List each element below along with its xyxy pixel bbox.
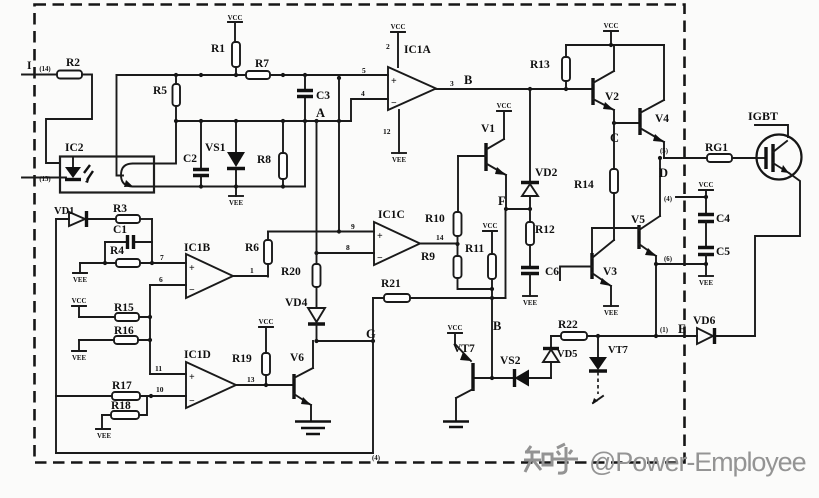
svg-text:C3: C3	[316, 90, 330, 102]
svg-text:R9: R9	[421, 251, 435, 263]
svg-text:(1): (1)	[660, 327, 668, 334]
svg-text:VS1: VS1	[205, 142, 226, 154]
resistor R16	[79, 325, 150, 344]
resistor R12	[526, 222, 555, 267]
ground below V6	[295, 422, 331, 435]
svg-text:V6: V6	[290, 352, 304, 364]
svg-text:4: 4	[361, 89, 365, 98]
svg-text:C5: C5	[716, 246, 730, 258]
power VCC above C4	[699, 182, 714, 214]
svg-text:IC1A: IC1A	[404, 44, 432, 56]
svg-text:VD1: VD1	[54, 206, 74, 217]
svg-text:7: 7	[160, 253, 164, 262]
wire node B column down to VT7 base	[490, 279, 501, 378]
svg-text:R11: R11	[465, 243, 484, 255]
svg-text:V1: V1	[481, 123, 495, 135]
svg-text:(4): (4)	[372, 455, 380, 462]
wire VCC rail y75	[117, 66, 389, 75]
power VCC above R15	[72, 298, 87, 317]
power VCC above VT7	[448, 325, 463, 344]
svg-text:(4): (4)	[664, 196, 672, 203]
capacitor C1	[105, 224, 152, 263]
diode VD1	[54, 206, 116, 227]
svg-text:+: +	[189, 263, 195, 274]
svg-text:R2: R2	[66, 57, 80, 69]
svg-text:VCC: VCC	[228, 15, 243, 22]
svg-text:−: −	[189, 285, 195, 296]
svg-text:VEE: VEE	[604, 310, 618, 317]
svg-text:(6): (6)	[664, 256, 672, 263]
wire bottom rail y186.5 (IC2 emitter line)	[133, 186, 305, 188]
IC2 LED	[65, 157, 81, 180]
svg-text:V4: V4	[655, 113, 669, 125]
resistor R21	[373, 278, 506, 302]
svg-text:A: A	[316, 106, 325, 120]
svg-text:IC1C: IC1C	[378, 209, 405, 221]
svg-text:VD5: VD5	[557, 349, 577, 360]
svg-text:R10: R10	[425, 213, 445, 225]
svg-text:(14): (14)	[39, 66, 50, 73]
diode VD4	[285, 297, 325, 341]
svg-text:VEE: VEE	[229, 200, 243, 207]
transistor V1	[458, 123, 506, 209]
wire (6) line	[654, 256, 706, 266]
svg-text:I: I	[27, 60, 32, 72]
svg-text:C1: C1	[113, 224, 127, 236]
resistor R1	[211, 42, 240, 75]
node dots on VCC rail	[174, 73, 341, 80]
wire R2 to IC2 LED anode	[46, 75, 92, 164]
resistor R20 on node A column	[281, 121, 321, 308]
svg-text:R1: R1	[211, 43, 225, 55]
svg-text:C4: C4	[716, 213, 730, 225]
svg-text:VCC: VCC	[259, 319, 274, 326]
svg-text:VCC: VCC	[497, 103, 512, 110]
wire node E line with R22	[551, 322, 755, 338]
capacitor C5	[698, 246, 730, 276]
ground below VT7	[443, 422, 469, 428]
wire node D column	[658, 156, 668, 216]
svg-text:C2: C2	[183, 153, 197, 165]
svg-text:−: −	[377, 253, 383, 264]
svg-text:(13): (13)	[39, 176, 50, 183]
svg-text:R20: R20	[281, 266, 301, 278]
svg-text:R6: R6	[245, 242, 259, 254]
svg-text:−: −	[189, 396, 195, 407]
wire IC1C pin9 line	[268, 222, 374, 234]
resistor R8	[257, 121, 287, 187]
wire G vertical to bottom rail	[372, 298, 374, 453]
wire V5 base to V3 base column	[591, 228, 593, 253]
svg-text:R16: R16	[114, 325, 134, 337]
op-amp IC1B	[184, 242, 233, 298]
resistor R5	[153, 75, 180, 164]
power VEE below IC1A pin 12	[383, 110, 406, 164]
power VEE below R4	[73, 263, 87, 284]
svg-text:R14: R14	[574, 179, 594, 191]
svg-text:VD6: VD6	[693, 315, 716, 327]
resistor R13	[530, 45, 570, 89]
capacitor C3	[297, 75, 330, 187]
power VEE below C5	[699, 276, 713, 287]
svg-text:−: −	[391, 98, 397, 109]
svg-text:IC1B: IC1B	[184, 242, 211, 254]
svg-text:IC1D: IC1D	[184, 349, 211, 361]
optocoupler IC2	[60, 142, 154, 193]
svg-text:RG1: RG1	[705, 142, 728, 154]
svg-text:VD2: VD2	[535, 167, 558, 179]
svg-text:R18: R18	[111, 400, 131, 412]
wire node G line	[314, 327, 376, 343]
zener VS2	[474, 355, 551, 387]
svg-text:R21: R21	[381, 278, 401, 290]
transistor V4	[640, 45, 669, 158]
node dots on A rail	[174, 119, 341, 123]
wire bottom rail	[56, 453, 380, 462]
wire node F	[498, 194, 532, 298]
power VEE below R16	[72, 340, 86, 362]
wire left rail	[55, 219, 57, 453]
transistor V2	[593, 45, 619, 123]
svg-text:VCC: VCC	[483, 223, 498, 230]
svg-text:B: B	[464, 73, 472, 87]
transistor V6	[290, 341, 313, 421]
svg-text:12: 12	[383, 127, 391, 136]
IC2 lightning arrow	[84, 165, 93, 183]
power VCC above V1	[497, 103, 512, 139]
wire node B: IC1A output to V2 base	[436, 73, 593, 91]
svg-text:R8: R8	[257, 154, 271, 166]
resistor R22	[558, 319, 587, 340]
resistor R11	[465, 243, 496, 279]
wire V3 base to C6	[560, 267, 592, 281]
wire input pin 13	[22, 176, 66, 183]
svg-text:1: 1	[250, 266, 254, 275]
op-amp IC1A	[388, 44, 436, 110]
power VCC above R11	[483, 223, 498, 254]
svg-text:R3: R3	[113, 203, 127, 215]
resistor R19	[232, 353, 270, 385]
wire IC1D pin10 / R17 line	[56, 385, 186, 398]
capacitor C4	[698, 213, 730, 248]
resistor R6	[245, 232, 272, 277]
svg-text:E: E	[678, 322, 686, 336]
svg-text:VEE: VEE	[72, 355, 86, 362]
IC2 phototransistor	[117, 75, 175, 187]
power VEE below VS1	[229, 196, 243, 207]
resistor R17	[112, 380, 140, 400]
svg-text:B: B	[493, 319, 501, 333]
zener VT7b below E line	[589, 336, 628, 404]
svg-text:R13: R13	[530, 59, 550, 71]
wire node A rail y121	[176, 106, 351, 121]
resistor R14	[574, 123, 618, 240]
svg-text:6: 6	[159, 275, 163, 284]
IGBT transistor circle	[757, 135, 802, 180]
svg-text:VCC: VCC	[448, 325, 463, 332]
wire IC1B output pin1	[233, 266, 268, 276]
svg-text:R7: R7	[255, 58, 269, 70]
svg-text:R12: R12	[535, 224, 555, 236]
svg-text:9: 9	[351, 222, 355, 231]
svg-text:R4: R4	[110, 245, 124, 257]
capacitor C6	[521, 266, 559, 296]
zener VS1	[205, 121, 245, 196]
svg-text:14: 14	[436, 233, 444, 242]
wire node C	[610, 121, 640, 145]
transistor V3	[592, 240, 617, 306]
svg-text:VEE: VEE	[699, 280, 713, 287]
power VEE below R18	[96, 415, 111, 440]
svg-text:5: 5	[362, 66, 366, 75]
svg-text:10: 10	[156, 385, 164, 394]
svg-text:R22: R22	[558, 319, 578, 331]
svg-text:(5): (5)	[660, 148, 668, 155]
watermark zhihu	[524, 444, 806, 477]
power VCC above R19	[259, 319, 274, 353]
wire V1 base column to R10	[457, 156, 459, 212]
diode VD2	[521, 89, 558, 222]
wire IC1B pin7	[152, 253, 186, 263]
resistor R9	[421, 251, 492, 289]
resistor RG1	[705, 142, 732, 162]
svg-text:VCC: VCC	[699, 182, 714, 189]
svg-text:3: 3	[450, 79, 454, 88]
svg-text:R15: R15	[114, 302, 134, 314]
capacitor C2	[183, 121, 209, 187]
resistor R7	[246, 58, 270, 79]
svg-text:11: 11	[155, 364, 162, 373]
resistor R10	[425, 212, 462, 256]
svg-text:VT7: VT7	[608, 345, 628, 356]
op-amp IC1C	[374, 209, 420, 265]
IGBT label and collector hook	[748, 109, 788, 137]
wire IC1B pin6 / divider column	[148, 275, 186, 374]
svg-text:IGBT: IGBT	[748, 109, 778, 123]
transistor VT7	[453, 343, 475, 421]
svg-text:VT7: VT7	[453, 343, 475, 355]
wire IC1D output pin13 to V6 base	[236, 375, 294, 387]
op-amp IC1D	[184, 349, 236, 408]
svg-text:R5: R5	[153, 85, 167, 97]
svg-text:V2: V2	[605, 91, 619, 103]
wire IC1C output pin14	[420, 233, 460, 246]
svg-text:VEE: VEE	[73, 277, 87, 284]
svg-text:VCC: VCC	[391, 24, 406, 31]
svg-text:VEE: VEE	[97, 433, 111, 440]
wire vertical rail75 to pin9 line	[338, 75, 340, 232]
svg-text:IC2: IC2	[65, 142, 84, 154]
wire IC1C pin8 line	[314, 243, 374, 255]
svg-text:VCC: VCC	[72, 298, 87, 305]
svg-text:+: +	[377, 231, 383, 242]
wire top right rail y45	[566, 43, 664, 47]
transistor V5	[592, 214, 660, 336]
svg-text:D: D	[659, 166, 668, 180]
dashed enclosure border	[35, 5, 685, 463]
svg-text:VEE: VEE	[392, 157, 406, 164]
svg-text:+: +	[189, 372, 195, 383]
svg-text:G: G	[366, 327, 376, 341]
diode VD6	[693, 315, 716, 344]
svg-text:VD4: VD4	[285, 297, 308, 309]
resistor R15	[79, 302, 150, 321]
wire (5) line to RG1	[660, 148, 757, 158]
power VCC above R1	[228, 15, 243, 42]
wire input pin 14	[22, 60, 57, 75]
svg-text:VCC: VCC	[604, 23, 619, 30]
svg-text:V3: V3	[603, 266, 617, 278]
svg-text:VS2: VS2	[500, 355, 521, 367]
node dots bottom rail	[199, 184, 285, 188]
resistor R18	[102, 396, 147, 419]
svg-text:V5: V5	[631, 214, 645, 226]
resistor R3	[113, 203, 152, 223]
svg-text:@Power-Employee: @Power-Employee	[589, 447, 806, 477]
svg-text:2: 2	[386, 42, 390, 51]
wire IGBT emitter path	[755, 173, 800, 336]
svg-text:R19: R19	[232, 353, 252, 365]
svg-text:R17: R17	[112, 380, 132, 392]
power VCC above IC1A	[386, 24, 405, 67]
power VEE below C6	[523, 296, 537, 307]
wire R3/C1/R4 junction column	[151, 219, 153, 263]
wire IC1A pin4 step	[351, 89, 388, 121]
svg-text:C6: C6	[545, 266, 559, 278]
svg-text:F: F	[498, 194, 506, 208]
wire (4) line	[664, 196, 706, 203]
svg-text:8: 8	[346, 243, 350, 252]
wire IC1D pin11	[150, 364, 186, 374]
svg-text:+: +	[391, 76, 397, 87]
power VCC top right rail	[604, 23, 619, 45]
diode VD5	[543, 336, 577, 378]
svg-text:VEE: VEE	[523, 300, 537, 307]
power VEE below V3	[604, 306, 618, 317]
svg-text:13: 13	[247, 375, 255, 384]
resistor R4	[80, 245, 154, 267]
resistor R2	[57, 57, 82, 79]
